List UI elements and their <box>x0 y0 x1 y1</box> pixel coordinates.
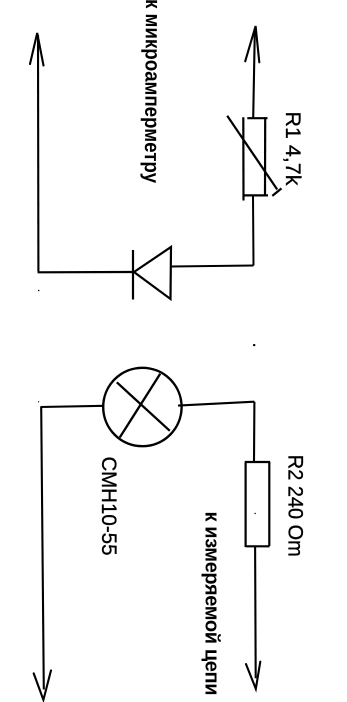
wire: R1 up to top arrow <box>253 31 255 118</box>
resistor R1 body <box>242 117 244 200</box>
svg-text:к микроамперметру: к микроамперметру <box>140 0 164 183</box>
resistor R1 adjustment diagonal <box>227 116 277 190</box>
wire: left drop to bottom arrow <box>41 407 44 690</box>
resistor R2 body <box>245 463 247 548</box>
svg-text:R1 4,7k: R1 4,7k <box>281 112 305 186</box>
wire: R2 down to bottom arrow <box>254 547 257 679</box>
svg-text:R2 240 Om: R2 240 Om <box>284 455 308 557</box>
speck dot near lamp corner <box>38 401 39 402</box>
diode VD1 triangle <box>134 247 171 299</box>
wire: left top shaft <box>37 35 40 272</box>
wire: diode to right riser <box>171 266 254 267</box>
resistor R1 diagonal end tick <box>272 188 281 196</box>
diode VD1 cathode bar <box>132 250 134 300</box>
wire: right riser up to R1 <box>252 196 255 266</box>
lamp HL1 cross line 2 <box>120 374 160 438</box>
wire: riser down to R2 <box>253 402 255 462</box>
lamp HL1 cross line 1 <box>117 382 170 431</box>
svg-text:СМН10-55: СМН10-55 <box>97 457 121 556</box>
node A: arrow to microammeter (left) <box>30 33 44 66</box>
speck dot inside R2 <box>254 513 255 514</box>
wire: bottom horizontal of top loop <box>38 271 133 273</box>
speck dot below left corner <box>38 290 40 292</box>
speck dot mid right <box>253 344 255 346</box>
node D: arrow bottom right <box>246 662 260 689</box>
svg-text:к измеряемой цепи: к измеряемой цепи <box>200 512 222 696</box>
lamp HL1 circle <box>103 368 181 446</box>
node C: arrow bottom left <box>34 670 51 700</box>
node B: arrow top right <box>245 26 259 62</box>
wire: lamp right horizontal <box>178 402 254 406</box>
wire: lamp left horizontal <box>40 406 104 407</box>
